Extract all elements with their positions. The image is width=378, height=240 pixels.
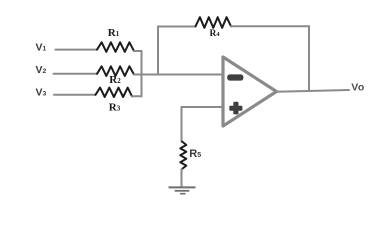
op-amp inverting input minus symbol [227,74,243,80]
node V2 [36,64,47,76]
node V3 [36,87,47,99]
wire feedback top left segment [158,26,196,28]
wire V3 stub [54,94,96,96]
wire feedback vertical left [157,27,159,75]
wire R3 exit to bus [132,95,142,97]
wire feedback top right segment [231,25,309,27]
wire R1 exit to bus [134,50,142,52]
wire down to R5 [181,107,183,142]
svg-text:R3: R3 [109,102,121,114]
resistor R1 [97,27,134,52]
svg-text:V2: V2 [36,64,47,76]
wire summing node to op-amp inverting input [134,74,222,76]
wire V2 stub [54,73,98,75]
svg-text:Vo: Vo [351,82,364,94]
wire feedback vertical right [308,26,310,91]
ground [169,187,196,193]
op-amp non-inverting input plus symbol [229,102,242,115]
svg-text:R5: R5 [189,148,201,160]
svg-text:R2: R2 [109,74,121,86]
op-amp U1 [223,57,277,126]
node V1 [36,42,47,54]
svg-text:V1: V1 [36,42,47,54]
wire V1 stub [56,49,98,51]
resistor R2 [97,66,134,86]
resistor R4 [196,17,232,39]
svg-text:V3: V3 [36,87,47,99]
wire vertical bus joining R1 R2 R3 [141,51,143,96]
wire op-amp output [277,90,350,92]
wire op-amp non-inverting input [182,106,223,108]
svg-text:R4: R4 [210,29,221,39]
resistor R5 [180,142,201,170]
svg-text:R1: R1 [108,27,120,39]
wire R5 to ground [181,169,183,186]
resistor R3 [96,88,133,114]
